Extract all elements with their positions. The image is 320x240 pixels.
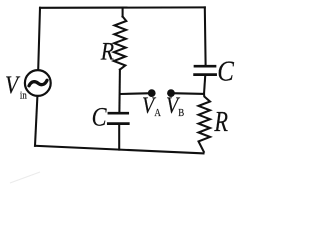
svg-text:V: V bbox=[5, 71, 21, 99]
voltage source sine tilde bbox=[29, 80, 47, 86]
svg-text:A: A bbox=[154, 107, 161, 119]
wire left bottom (source bottom lead) bbox=[35, 96, 37, 146]
wire top rail bbox=[40, 6, 205, 8]
svg-text:R: R bbox=[100, 38, 115, 66]
wire left top (source top lead) bbox=[38, 8, 40, 70]
wire node A tap bbox=[120, 92, 151, 95]
resistor R1 bbox=[114, 17, 127, 70]
wire middle top stem bbox=[122, 8, 124, 17]
svg-text:R: R bbox=[214, 107, 229, 138]
wire right top (to capacitor C2) bbox=[204, 7, 207, 64]
resistor R2 bbox=[199, 94, 211, 152]
wire bottom rail bbox=[35, 146, 204, 154]
svg-text:in: in bbox=[20, 90, 27, 102]
wire right middle (C2 to node junction) bbox=[204, 76, 205, 94]
wire middle (R1 to capacitor C1) bbox=[118, 70, 121, 112]
capacitor C1 bbox=[108, 113, 128, 123]
svg-text:B: B bbox=[178, 107, 184, 119]
wire C1 to bottom rail bbox=[118, 125, 120, 149]
capacitor C2 bbox=[195, 66, 216, 74]
node B dot bbox=[167, 89, 175, 97]
node A dot bbox=[148, 89, 156, 97]
svg-text:C: C bbox=[217, 55, 235, 87]
voltage source U1 circle bbox=[25, 70, 51, 96]
scan artifact streak bbox=[10, 172, 40, 183]
svg-text:C: C bbox=[92, 103, 108, 132]
wire node B tap bbox=[172, 92, 204, 95]
